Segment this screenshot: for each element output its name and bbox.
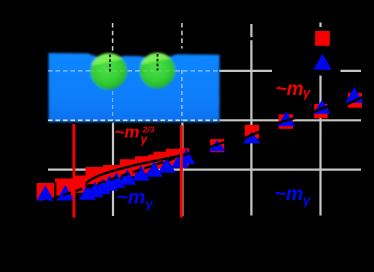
data triangle T11: [158, 157, 176, 173]
data point P4 blue triangle: [313, 100, 330, 114]
data triangle T5: [94, 179, 112, 195]
data point P2 red square: [245, 125, 259, 139]
data triangle T12: [171, 152, 189, 168]
data triangle T8: [119, 169, 137, 185]
grid vertical line x=251.4: [250, 24, 252, 216]
dashed gridline overlay y=70.9 across inset (left): [48, 70, 90, 72]
svg-text:~m: ~m: [115, 123, 140, 142]
svg-text:γ: γ: [303, 193, 311, 208]
data triangle T3: [79, 184, 97, 200]
data point P4 red square: [314, 104, 328, 118]
legend background box: [272, 27, 341, 76]
red vertical marker line 1: [72, 124, 75, 218]
dash gap in gridline x=251.4: [250, 37, 253, 40]
svg-text:~m: ~m: [117, 187, 146, 209]
svg-text:~m: ~m: [276, 79, 304, 100]
label ~m_gamma^(2/3) red: [115, 123, 155, 147]
red square staircase (dense series): [37, 148, 189, 200]
black solid fit curve ~m^(2/3): [86, 153, 191, 184]
grid horizontal line y=169.6: [48, 169, 361, 171]
legend red square: [315, 31, 330, 46]
data triangle T10: [145, 161, 163, 177]
data point P5 blue triangle: [345, 87, 363, 103]
data triangle T1: [37, 185, 55, 201]
data triangle T4: [86, 182, 104, 198]
legend blue triangle: [313, 53, 331, 69]
fit line dash over point P1: [207, 141, 228, 148]
data triangle T9: [132, 165, 150, 181]
inset sphere 2 light cap: [139, 36, 177, 65]
black dashed fit line ~m (dense band): [40, 148, 205, 203]
grid horizontal line y=120.3 (right of inset): [219, 119, 361, 121]
fit line dash over point P2: [242, 131, 261, 139]
data point P3 red square: [279, 114, 293, 129]
faint dashed gridline over spheres y=70.9: [90, 70, 176, 72]
red vertical marker line 2: [180, 126, 183, 218]
data triangle T7: [108, 172, 126, 188]
data point P1 red square: [210, 139, 224, 152]
dashed gridline overlay y=70.9 right of spheres: [176, 70, 220, 72]
data triangle T2: [57, 185, 75, 201]
grid vertical line x=113 (lower part): [112, 123, 114, 217]
svg-text:γ: γ: [146, 196, 154, 211]
fit line dash over point P5: [347, 97, 364, 105]
dashed vertical overlay x=181.9 over water: [181, 70, 183, 121]
dashed vertical line above inset at x=112.6: [112, 23, 114, 52]
fit line dash over point P4: [313, 105, 330, 112]
dashed vertical line above inset at x=181.9: [181, 23, 183, 49]
label ~m_gamma red (upper right): [276, 79, 312, 100]
inset sphere 2: [140, 53, 176, 89]
inset sphere 1 light cap: [90, 37, 130, 66]
data point P2 blue triangle: [243, 132, 261, 144]
black dashed axis inside sphere 2: [157, 54, 159, 71]
data triangle T6: [101, 175, 119, 191]
dashed vertical overlay x=112.6 over water: [112, 91, 114, 121]
inset illustration: spheres floating on water: [49, 36, 220, 122]
data point P5 red square: [348, 93, 362, 108]
data triangle T13: [178, 149, 196, 165]
grid vertical line x=182.4 (lower part): [181, 123, 183, 217]
data point P1 blue triangle: [209, 140, 226, 151]
grid vertical line x=320.5: [319, 23, 321, 216]
svg-text:γ: γ: [303, 85, 311, 100]
gap between first two squares: [54, 183, 56, 201]
black dashed axis inside sphere 1: [109, 55, 111, 72]
inset water surface: [49, 53, 220, 122]
svg-text:~m: ~m: [275, 183, 304, 205]
inset sphere 1: [90, 53, 127, 90]
grid horizontal line y=70.9 (right of inset): [219, 70, 361, 72]
fit line dash over point P3: [277, 118, 296, 124]
dashed gridline overlay y=70.9 between spheres: [128, 70, 140, 72]
label ~m_gamma blue (lower right): [275, 183, 312, 208]
dashed gridline overlay y=120.3 across inset: [48, 119, 220, 121]
label ~m_gamma blue (lower left): [117, 187, 154, 212]
data point P3 blue triangle: [277, 111, 295, 126]
